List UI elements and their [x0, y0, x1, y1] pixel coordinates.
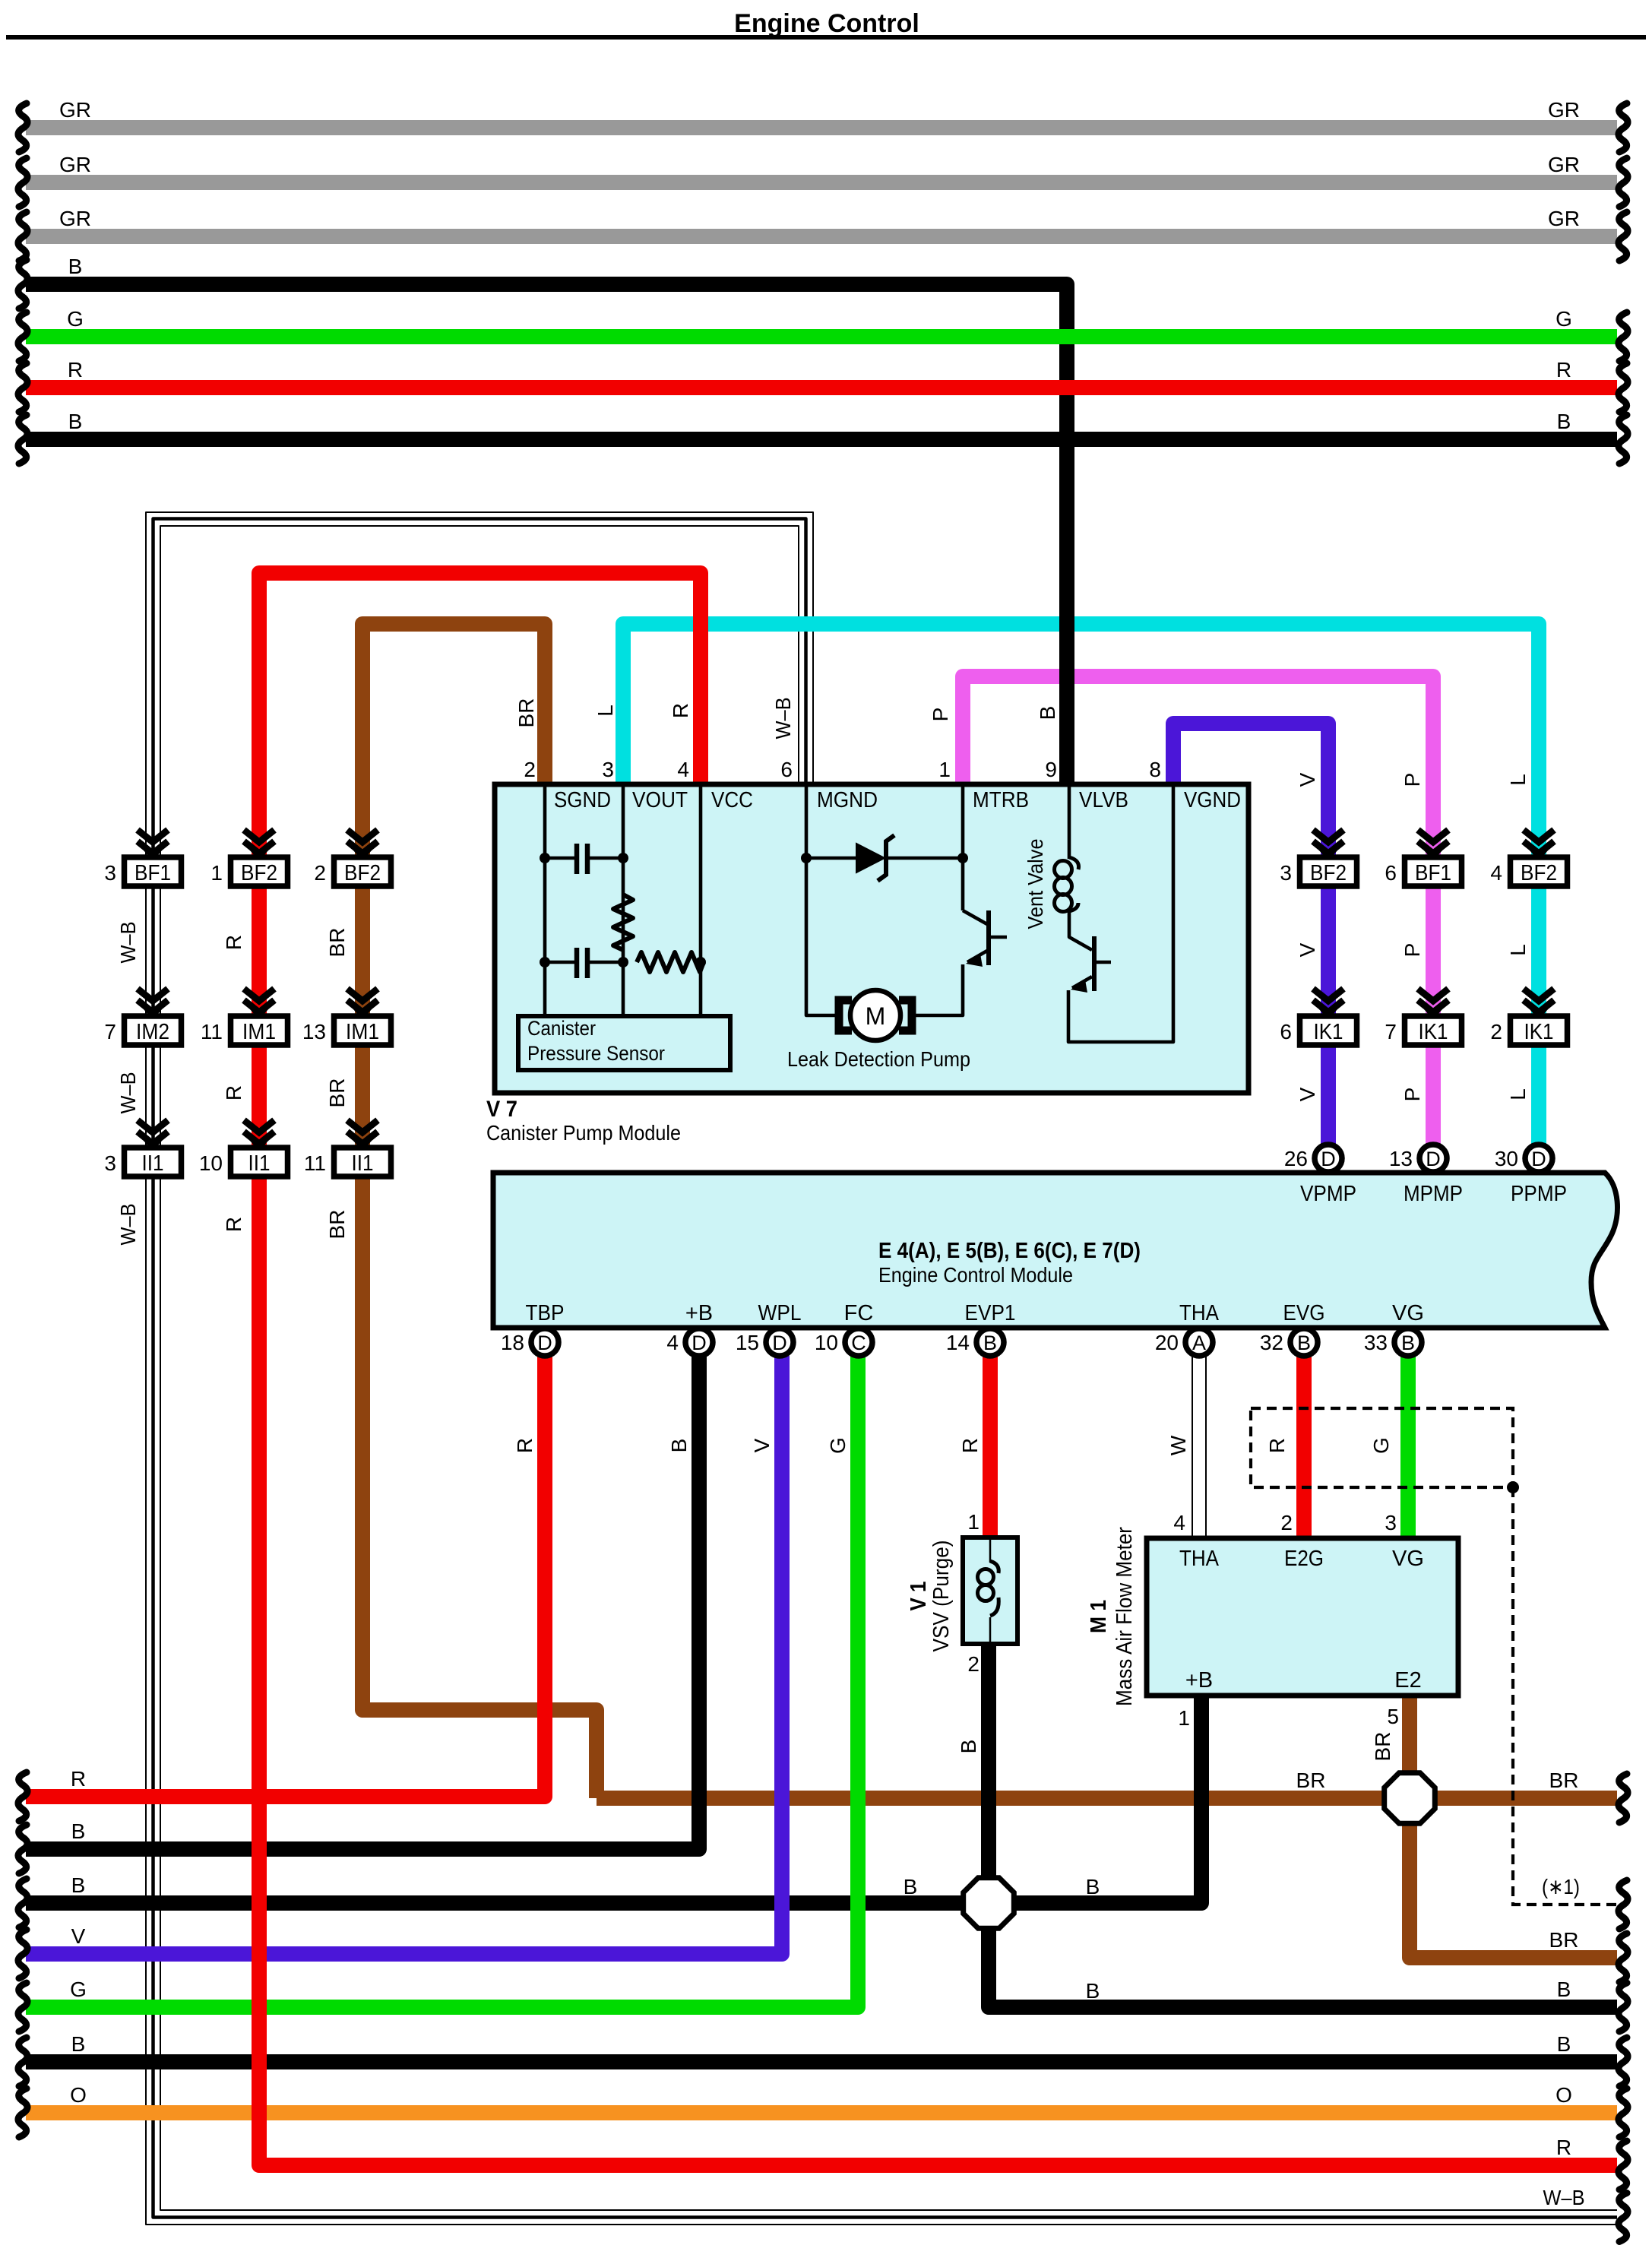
svg-text:L: L	[1506, 774, 1530, 786]
svg-text:V 1: V 1	[907, 1582, 931, 1611]
wire G bus row5	[26, 329, 1617, 344]
svg-text:R: R	[222, 1217, 245, 1232]
wire V violet from V7 pin 8 VGND over to connector 3 BF2 and down to 6 IK1 and ECM pin 26 VPMP	[1173, 724, 1328, 1144]
svg-text:II1: II1	[352, 1151, 374, 1176]
svg-text:2: 2	[314, 861, 326, 885]
svg-text:VOUT: VOUT	[632, 788, 688, 812]
wire W-B from connector BF1 up and over to V7 pin 6 MGND	[146, 512, 813, 857]
junction dot on dashed box corner	[1507, 1481, 1519, 1493]
svg-text:BF2: BF2	[241, 861, 277, 885]
svg-text:VSV (Purge): VSV (Purge)	[929, 1541, 954, 1652]
svg-text:VG: VG	[1392, 1547, 1424, 1571]
svg-text:GR: GR	[1548, 153, 1580, 176]
svg-text:7: 7	[1385, 1020, 1397, 1043]
svg-text:VLVB: VLVB	[1079, 788, 1128, 812]
svg-text:4: 4	[666, 1331, 679, 1354]
wire GR bus row1	[26, 120, 1617, 135]
svg-text:G: G	[1555, 307, 1572, 331]
svg-text:MTRB: MTRB	[973, 788, 1029, 812]
wire B full width bus	[26, 2054, 1617, 2069]
svg-text:6: 6	[1280, 1020, 1292, 1043]
svg-text:V: V	[71, 1924, 86, 1948]
svg-text:B: B	[71, 1873, 86, 1897]
svg-text:W–B: W–B	[116, 922, 140, 964]
wire W-B left column from BF1 through IM2 and II1 down to bottom W-B bus	[146, 857, 1617, 2225]
svg-text:1: 1	[1178, 1706, 1190, 1730]
motor M of leak detection pump	[850, 990, 900, 1040]
ECM bottom pin circles	[531, 1328, 559, 1356]
wire V violet from ECM pin 15 WPL down to left edge bus	[26, 1356, 782, 1954]
junction dots leak pump	[801, 853, 812, 863]
svg-text:BR: BR	[325, 928, 349, 958]
svg-text:BR: BR	[1549, 1928, 1579, 1952]
svg-text:33: 33	[1364, 1331, 1388, 1354]
wire G green ECM pin 33 VG down to M1 VG	[1400, 1356, 1416, 1537]
svg-text:IM1: IM1	[346, 1020, 379, 1044]
svg-text:10: 10	[815, 1331, 838, 1354]
svg-text:6: 6	[780, 758, 793, 781]
svg-text:R: R	[513, 1438, 536, 1453]
svg-text:G: G	[67, 307, 84, 331]
svg-text:BR: BR	[325, 1210, 349, 1240]
svg-text:IK1: IK1	[1419, 1020, 1448, 1044]
svg-text:WPL: WPL	[758, 1301, 802, 1325]
svg-text:R: R	[68, 358, 83, 382]
wire B bus row7	[26, 432, 1617, 447]
svg-text:18: 18	[501, 1331, 524, 1354]
svg-text:3: 3	[602, 758, 614, 781]
dashed line (*1) down and right to edge	[1513, 1487, 1617, 1905]
svg-text:A: A	[1192, 1332, 1206, 1354]
right connector row IK: 6 IK1, 7 IK1, 2 IK1	[1313, 989, 1343, 1020]
svg-text:V: V	[1296, 942, 1319, 957]
wire GR bus row3	[26, 229, 1617, 244]
wire P pink from V7 pin 1 MTRB over to connector 6 BF1 and down to 7 IK1 and ECM pin 13 MPMP	[963, 676, 1433, 1144]
svg-text:THA: THA	[1179, 1301, 1220, 1325]
bottom R bus right break symbol	[1619, 2141, 1628, 2190]
svg-text:32: 32	[1260, 1331, 1283, 1354]
svg-text:BR: BR	[1371, 1732, 1394, 1762]
wire L cyan from V7 pin 3 VOUT over to connector 4 BF2 and down to 2 IK1 and ECM pin 30 PPMP	[623, 624, 1539, 1144]
svg-text:BR: BR	[514, 698, 538, 728]
svg-text:D: D	[1531, 1148, 1546, 1170]
wire B bus row4 with vertical drop to V7 pin 9 VLVB	[26, 284, 1067, 784]
svg-text:W–B: W–B	[116, 1072, 140, 1114]
svg-text:GR: GR	[59, 207, 91, 230]
svg-text:11: 11	[304, 1151, 326, 1175]
svg-text:BF2: BF2	[1521, 861, 1557, 885]
svg-text:VPMP: VPMP	[1300, 1182, 1356, 1206]
svg-text:P: P	[1400, 1088, 1424, 1102]
svg-text:B: B	[1557, 410, 1571, 433]
svg-text:Engine Control Module: Engine Control Module	[878, 1263, 1073, 1287]
svg-text:IM2: IM2	[136, 1020, 169, 1044]
svg-text:4: 4	[1173, 1511, 1185, 1534]
svg-text:3: 3	[1385, 1511, 1397, 1534]
vent valve internal circuit	[1068, 784, 1173, 1042]
wire W white ECM pin 20 THA down to M1 THA (double line)	[1192, 1356, 1193, 1537]
svg-text:R: R	[1556, 358, 1571, 382]
svg-text:V: V	[1296, 772, 1319, 787]
svg-text:B: B	[957, 1740, 980, 1754]
svg-text:4: 4	[1490, 861, 1502, 885]
svg-text:10: 10	[199, 1151, 223, 1175]
svg-text:R: R	[222, 935, 245, 950]
octagon junction BR	[1385, 1773, 1435, 1824]
svg-text:9: 9	[1045, 758, 1057, 781]
svg-text:P: P	[1400, 943, 1424, 958]
canister pressure sensor box	[518, 1016, 730, 1070]
svg-text:3: 3	[104, 1151, 116, 1175]
right connector row BF: 3 BF2, 6 BF1, 4 BF2	[1313, 830, 1343, 861]
svg-text:Engine Control: Engine Control	[734, 9, 919, 38]
valve V1 VSV (Purge) box	[963, 1537, 1017, 1644]
svg-text:FC: FC	[844, 1301, 874, 1325]
svg-text:W: W	[1166, 1435, 1190, 1455]
svg-text:VG: VG	[1392, 1301, 1424, 1325]
(*1) break symbol and label	[1619, 1880, 1628, 1929]
svg-text:B: B	[667, 1439, 691, 1453]
svg-text:W–B: W–B	[771, 698, 795, 739]
svg-text:G: G	[826, 1437, 850, 1454]
transistor Q1 emitter arrow	[966, 954, 983, 967]
svg-text:D: D	[772, 1332, 787, 1354]
svg-text:+B: +B	[1185, 1668, 1213, 1693]
svg-text:B: B	[1036, 706, 1059, 720]
svg-text:D: D	[1321, 1148, 1336, 1170]
svg-text:BF2: BF2	[344, 861, 381, 885]
svg-text:MPMP: MPMP	[1404, 1182, 1463, 1206]
wire B VSV pin 2 down to octagon junction	[981, 1644, 996, 1903]
svg-text:V: V	[1296, 1087, 1319, 1101]
svg-text:IK1: IK1	[1314, 1020, 1343, 1044]
svg-text:G: G	[1369, 1437, 1393, 1454]
svg-text:D: D	[1426, 1148, 1441, 1170]
svg-text:E 4(A), E 5(B), E 6(C), E 7(D): E 4(A), E 5(B), E 6(C), E 7(D)	[878, 1239, 1141, 1263]
svg-text:R: R	[1556, 2136, 1571, 2159]
wire BR from M1 E2 down to octagon junction	[1402, 1696, 1417, 1798]
BR bus right break symbols	[1619, 1774, 1628, 1822]
svg-text:26: 26	[1284, 1147, 1308, 1170]
wire R red from connector 1 BF2 up and over to V7 pin 4 VCC	[259, 573, 701, 857]
svg-text:R: R	[958, 1438, 982, 1453]
svg-text:B: B	[68, 255, 83, 278]
svg-text:20: 20	[1155, 1331, 1179, 1354]
wire B net VSV to M1 +B with octagon junction to left edge	[26, 1696, 1201, 1903]
svg-text:L: L	[593, 705, 617, 717]
svg-text:IM1: IM1	[242, 1020, 276, 1044]
svg-text:2: 2	[524, 758, 536, 781]
svg-text:2: 2	[1490, 1020, 1502, 1043]
svg-text:BF1: BF1	[1415, 861, 1451, 885]
svg-text:Vent Valve: Vent Valve	[1024, 839, 1047, 929]
svg-text:R: R	[669, 703, 692, 718]
wire BR from octagon junction down then right to edge	[1410, 1798, 1617, 1958]
svg-text:3: 3	[104, 861, 116, 885]
svg-text:(∗1): (∗1)	[1542, 1875, 1580, 1898]
svg-text:G: G	[70, 1978, 87, 2001]
transistor Q2 base bar	[1092, 936, 1097, 991]
svg-text:Mass Air Flow Meter: Mass Air Flow Meter	[1112, 1527, 1137, 1706]
svg-text:P: P	[1400, 773, 1424, 787]
title underline	[6, 35, 1646, 40]
svg-text:B: B	[1401, 1332, 1415, 1354]
svg-text:1: 1	[967, 1510, 979, 1534]
svg-text:GR: GR	[59, 153, 91, 176]
svg-text:BR: BR	[1549, 1769, 1579, 1792]
wire G green from ECM pin 10 FC down to left edge bus	[26, 1356, 858, 2007]
svg-text:B: B	[1297, 1332, 1311, 1354]
wire O orange full width bus	[26, 2105, 1617, 2120]
wire R red ECM pin 14 EVP1 down to VSV pin 1	[983, 1356, 998, 1537]
svg-text:BF1: BF1	[135, 861, 171, 885]
svg-text:W–B: W–B	[1543, 2186, 1585, 2209]
svg-text:11: 11	[201, 1020, 223, 1043]
wire G and R bus repaint over B vertical	[1049, 329, 1087, 344]
svg-text:D: D	[537, 1332, 552, 1354]
svg-text:GR: GR	[1548, 207, 1580, 230]
svg-text:GR: GR	[59, 98, 91, 122]
wire R bus row6	[26, 380, 1617, 395]
svg-text:IK1: IK1	[1524, 1020, 1554, 1044]
svg-text:C: C	[851, 1332, 866, 1354]
svg-text:B: B	[983, 1332, 997, 1354]
svg-text:O: O	[70, 2083, 87, 2107]
svg-text:II1: II1	[142, 1151, 164, 1176]
svg-text:B: B	[71, 2032, 86, 2056]
leak detection pump internal circuit	[806, 784, 1007, 1015]
wire BR brown from connector 2 BF2 up and over to V7 pin 2 SGND	[362, 624, 545, 857]
svg-text:M: M	[866, 1002, 886, 1030]
svg-text:PPMP: PPMP	[1511, 1182, 1567, 1206]
svg-text:II1: II1	[248, 1151, 271, 1176]
svg-text:V 7: V 7	[486, 1097, 517, 1122]
svg-text:2: 2	[1280, 1511, 1293, 1534]
svg-text:M 1: M 1	[1087, 1600, 1111, 1633]
top bus left break symbols	[18, 103, 27, 152]
svg-text:R: R	[71, 1767, 86, 1791]
bottom bus left break symbols	[18, 1772, 27, 1821]
svg-text:GR: GR	[1548, 98, 1580, 122]
svg-text:8: 8	[1149, 758, 1161, 781]
svg-text:Canister Pump Module: Canister Pump Module	[486, 1121, 681, 1145]
VSV internal coil line	[989, 1537, 992, 1644]
svg-text:B: B	[1557, 1978, 1571, 2001]
wire R column from 1 BF2 through 10 II1 down to bottom R bus	[259, 857, 1617, 2165]
left connector row II: 3 II1, 10 II1, 11 II1	[138, 1120, 168, 1151]
svg-text:2: 2	[967, 1652, 979, 1676]
svg-text:B: B	[1557, 2032, 1571, 2056]
wire B from ECM pin 4 +B down to left edge bus	[26, 1356, 699, 1849]
svg-text:Pressure Sensor: Pressure Sensor	[527, 1042, 665, 1065]
wire B from octagon junction down then right to edge	[989, 1903, 1617, 2007]
canister pressure sensor internal circuit	[545, 784, 704, 1016]
svg-text:D: D	[691, 1332, 707, 1354]
svg-text:1: 1	[210, 861, 223, 885]
top bus right break symbols	[1619, 103, 1628, 152]
svg-text:BF2: BF2	[1310, 861, 1347, 885]
bottom bus right break symbols	[1619, 1983, 1628, 2031]
svg-text:L: L	[1506, 944, 1530, 956]
svg-text:1: 1	[938, 758, 951, 781]
left connector row BF: 3 BF1, 1 BF2, 2 BF2	[138, 830, 168, 861]
svg-text:R: R	[1265, 1438, 1289, 1453]
svg-text:BR: BR	[325, 1078, 349, 1108]
svg-text:14: 14	[946, 1331, 970, 1354]
svg-text:V: V	[750, 1438, 774, 1452]
zener diode	[856, 844, 885, 872]
octagon junction B	[964, 1878, 1014, 1929]
svg-text:L: L	[1506, 1088, 1530, 1100]
module ECM Engine Control Module box with torn right edge	[493, 1173, 1617, 1328]
ECM top pin circles	[1315, 1145, 1342, 1172]
dashed box around EVG and VG wires	[1251, 1408, 1513, 1487]
svg-text:TBP: TBP	[526, 1301, 565, 1325]
svg-text:R: R	[222, 1085, 245, 1100]
svg-text:B: B	[1086, 1979, 1100, 2003]
svg-text:3: 3	[1280, 861, 1292, 885]
transistor Q2 emitter arrow	[1071, 980, 1087, 993]
svg-text:4: 4	[677, 758, 689, 781]
module M1 Mass Air Flow Meter box	[1147, 1538, 1458, 1696]
svg-text:SGND: SGND	[554, 788, 611, 812]
transistor Q1 base bar	[986, 910, 991, 965]
svg-text:13: 13	[302, 1020, 326, 1043]
svg-text:13: 13	[1389, 1147, 1413, 1170]
svg-text:B: B	[71, 1819, 86, 1843]
svg-text:E2G: E2G	[1284, 1547, 1324, 1571]
svg-text:B: B	[68, 410, 83, 433]
svg-text:EVP1: EVP1	[965, 1301, 1016, 1325]
svg-text:5: 5	[1387, 1705, 1399, 1728]
junction dots canister sensor	[540, 853, 550, 863]
wire BR column from 2 BF2 through 11 II1 down then over to BR bus	[362, 857, 597, 1798]
wire BR bus to right edge with octagon junction	[597, 1791, 1617, 1806]
svg-text:+B: +B	[685, 1301, 713, 1325]
svg-text:BR: BR	[1296, 1769, 1326, 1792]
svg-text:E2: E2	[1394, 1668, 1421, 1693]
svg-text:6: 6	[1385, 861, 1397, 885]
wire R red from ECM pin 18 TBP down to left edge bus	[26, 1356, 545, 1797]
svg-text:15: 15	[736, 1331, 759, 1354]
svg-text:MGND: MGND	[817, 788, 878, 812]
svg-text:Canister: Canister	[527, 1017, 596, 1040]
left connector row IM: 7 IM2, 11 IM1, 13 IM1	[138, 989, 168, 1020]
svg-text:VCC: VCC	[711, 788, 753, 812]
svg-text:THA: THA	[1179, 1547, 1220, 1571]
module V7 Canister Pump Module box	[495, 784, 1248, 1093]
svg-text:30: 30	[1495, 1147, 1518, 1170]
svg-text:VGND: VGND	[1184, 788, 1241, 812]
wire GR bus row2	[26, 175, 1617, 190]
svg-text:P: P	[929, 708, 952, 722]
svg-text:B: B	[1086, 1875, 1100, 1898]
svg-text:W–B: W–B	[116, 1204, 140, 1246]
svg-text:B: B	[904, 1875, 918, 1898]
bottom W-B bus right break symbol	[1619, 2193, 1628, 2242]
svg-text:Leak Detection Pump: Leak Detection Pump	[787, 1047, 970, 1071]
wire R red ECM pin 32 EVG down to M1 E2G	[1296, 1356, 1312, 1537]
svg-text:7: 7	[104, 1020, 116, 1043]
vent valve coil	[1055, 861, 1072, 879]
svg-text:O: O	[1555, 2083, 1572, 2107]
svg-text:EVG: EVG	[1283, 1301, 1325, 1325]
